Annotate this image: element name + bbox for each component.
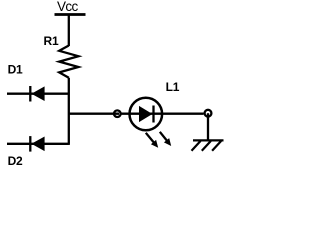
svg-text:R1: R1 [44,34,59,48]
svg-text:Vcc: Vcc [57,0,79,14]
diode D2 triangle [31,137,44,152]
diode D1 triangle [31,86,44,101]
LED L1 triangle [139,106,152,122]
wire ground stem [207,113,209,140]
svg-text:L1: L1 [166,80,180,94]
ground hatch 1 [192,141,201,151]
wire Vcc bar to R1 [68,15,70,47]
svg-text:D1: D1 [8,63,23,77]
LED L1 cathode bar [152,106,154,123]
terminal left (open circle) [114,110,121,117]
diode D1 cathode bar [29,86,31,102]
LED emission arrow 2 [160,132,169,143]
wire D1 horizontal [7,93,69,95]
ground bar [193,139,224,141]
power rail Vcc bar [55,13,86,16]
LED emission arrow 1 [146,133,156,145]
wire left terminal to right terminal [121,113,204,115]
wire D2 horizontal [7,143,69,145]
lamp L1 circle [130,98,163,131]
ground hatch 2 [202,141,211,151]
wire junction vertical (R1 bottom to D2) [68,78,70,145]
resistor R1 [59,46,78,78]
diode D2 cathode bar [29,136,31,152]
terminal right (open circle) [205,110,212,117]
svg-text:D2: D2 [8,154,23,168]
wire junction to left terminal [69,113,119,115]
ground hatch 3 [212,141,221,151]
